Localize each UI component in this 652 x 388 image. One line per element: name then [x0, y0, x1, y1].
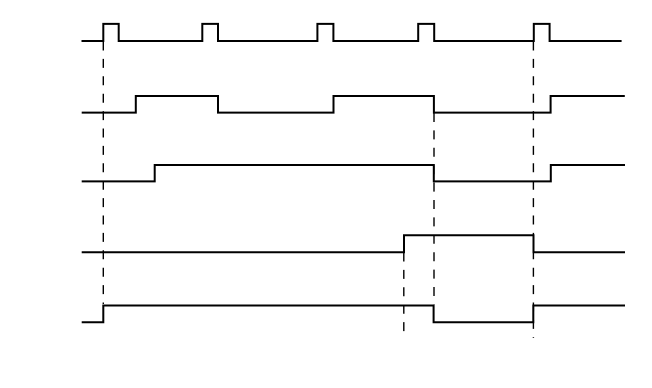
- marker line t2 (dashed, signal Q2 rising edge): [403, 253, 405, 335]
- marker line t3 (dashed, signal D falling edge): [433, 113, 435, 305]
- waveform D (row 2): [82, 96, 625, 113]
- waveform CLK (row 1 clock pulses): [82, 24, 622, 41]
- waveform Q2-bar (row 5): [82, 306, 625, 323]
- marker line t1 (dashed, clock pulse 1 rising edge): [102, 42, 104, 305]
- waveform Q1 (row 3): [82, 165, 625, 181]
- marker line t4 (dashed, clock pulse 5 rising edge): [532, 42, 534, 339]
- waveform Q2 (row 4): [82, 235, 625, 252]
